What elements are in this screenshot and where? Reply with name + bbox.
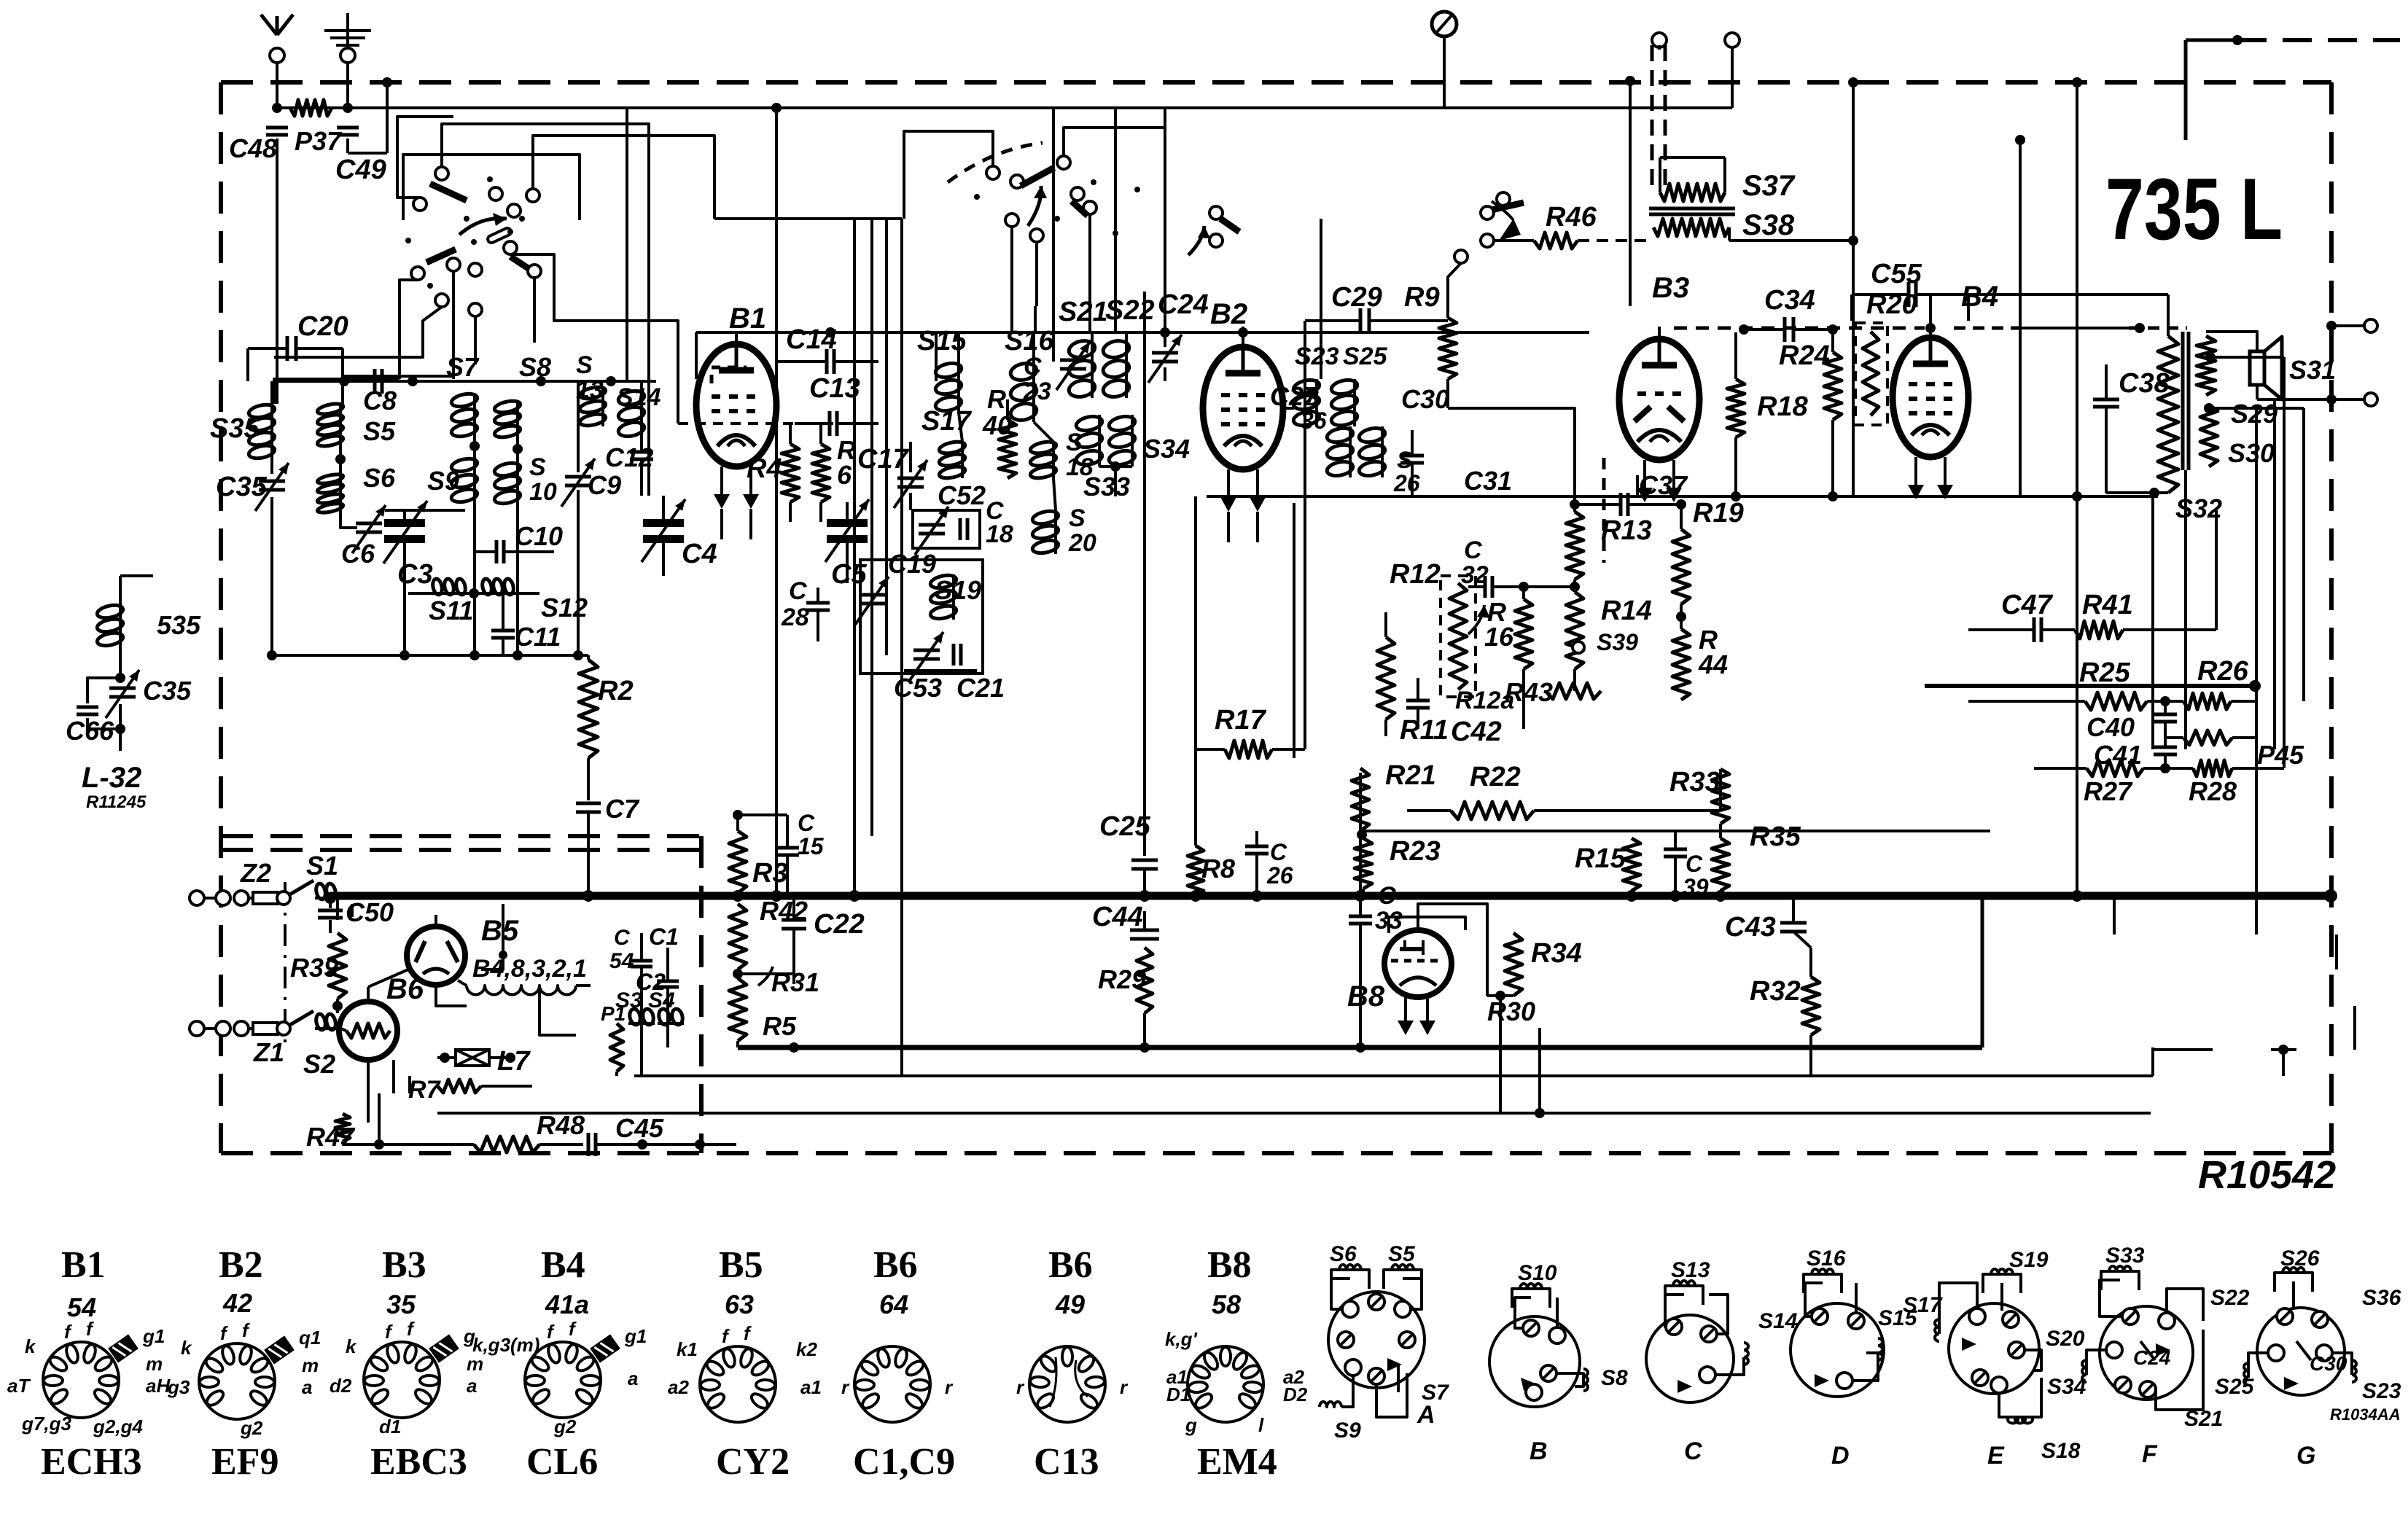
AVC dashed line xyxy=(1674,327,1925,330)
capacitor C43 xyxy=(1780,921,1807,925)
capacitor C2 xyxy=(657,980,679,983)
svg-text:R12a: R12a xyxy=(1455,687,1514,714)
wire B2 to S24 xyxy=(1283,407,1294,410)
resistor R40 xyxy=(999,420,1016,478)
svg-text:R35: R35 xyxy=(1750,822,1801,852)
svg-text:C1,C9: C1,C9 xyxy=(853,1441,955,1483)
svg-text:13: 13 xyxy=(576,376,604,404)
mains terminals xyxy=(1652,33,1667,47)
capacitor C42 xyxy=(1406,699,1430,703)
svg-text:S22: S22 xyxy=(1105,295,1155,326)
svg-text:R46: R46 xyxy=(1546,202,1597,233)
tube B8 EM4 xyxy=(1384,930,1452,997)
svg-text:C1: C1 xyxy=(649,924,679,950)
capacitor C18 xyxy=(959,518,962,540)
coil form B xyxy=(1489,1316,1580,1407)
B1 cathode wires xyxy=(720,509,723,539)
svg-text:P45: P45 xyxy=(2257,740,2304,770)
svg-text:15: 15 xyxy=(798,833,825,859)
svg-text:S7: S7 xyxy=(1422,1381,1449,1405)
resistor R6 xyxy=(812,444,830,502)
B8 grid wires xyxy=(1389,917,1465,933)
output transformer core xyxy=(2181,332,2185,470)
resistor R4 xyxy=(782,444,799,502)
svg-text:S8: S8 xyxy=(519,352,551,382)
resistor R42 xyxy=(729,904,747,969)
wire B3 bottom xyxy=(1636,475,1639,496)
svg-text:C9: C9 xyxy=(588,470,621,500)
svg-text:C42: C42 xyxy=(1451,717,1502,747)
variable capacitor C4 xyxy=(643,519,684,527)
svg-text:R2: R2 xyxy=(598,676,634,706)
svg-text:C31: C31 xyxy=(1464,466,1512,496)
coil S35 xyxy=(270,404,273,459)
svg-text:Z1: Z1 xyxy=(253,1037,284,1067)
capacitor C8 xyxy=(373,369,377,394)
svg-text:R48: R48 xyxy=(537,1110,585,1140)
wire switch1 to B1 xyxy=(554,306,678,424)
svg-text:S39: S39 xyxy=(1597,629,1638,655)
coils S3 S4 xyxy=(628,1022,655,1025)
capacitor C21 xyxy=(952,644,956,666)
capacitor C29 xyxy=(1359,308,1363,333)
svg-text:C21: C21 xyxy=(956,673,1005,703)
variable capacitor C6 xyxy=(356,522,382,526)
svg-text:g2,g4: g2,g4 xyxy=(93,1416,143,1437)
resistor R48 xyxy=(474,1136,539,1152)
wire B1 area verticals xyxy=(695,332,698,379)
capacitor C31 xyxy=(1400,454,1424,458)
coil form D xyxy=(1791,1303,1884,1397)
resistor R8 xyxy=(1188,846,1204,896)
resistor R13 xyxy=(1566,512,1583,580)
svg-text:54: 54 xyxy=(609,949,634,973)
resistor R18 xyxy=(1727,379,1745,437)
svg-text:k: k xyxy=(181,1337,192,1359)
resistor R24 xyxy=(1824,352,1842,420)
resistor R5 xyxy=(729,978,747,1041)
svg-text:B3: B3 xyxy=(382,1244,426,1286)
coil S8 xyxy=(516,400,519,437)
coil S34 xyxy=(1131,415,1134,467)
svg-text:S23: S23 xyxy=(1295,343,1339,370)
svg-text:Z2: Z2 xyxy=(240,858,271,888)
svg-text:EF9: EF9 xyxy=(211,1441,278,1483)
coil form A xyxy=(1328,1292,1425,1388)
svg-text:C4: C4 xyxy=(682,539,717,569)
bus line 2 xyxy=(738,1045,1982,1050)
svg-text:R1034AA: R1034AA xyxy=(2330,1405,2401,1424)
wire top bus xyxy=(277,106,1665,109)
variable capacitor C5 xyxy=(827,519,868,527)
capacitor C49 xyxy=(337,126,359,130)
svg-text:R31: R31 xyxy=(771,967,819,997)
svg-text:aT: aT xyxy=(7,1375,31,1397)
svg-text:C: C xyxy=(1684,1437,1702,1465)
svg-text:R25: R25 xyxy=(2079,658,2131,688)
capacitor C22 xyxy=(782,918,806,922)
coil S17 xyxy=(961,442,964,478)
capacitor C26 xyxy=(1245,845,1269,848)
svg-text:S9: S9 xyxy=(427,466,459,496)
capacitor C48 xyxy=(266,126,288,130)
svg-text:S: S xyxy=(1069,504,1086,532)
wire B4 cathode xyxy=(1914,488,1917,496)
svg-text:C11: C11 xyxy=(515,622,561,652)
svg-text:C55: C55 xyxy=(1871,259,1922,289)
svg-text:C47: C47 xyxy=(2001,590,2054,620)
coil S2 choke xyxy=(315,1027,337,1030)
svg-text:g1: g1 xyxy=(142,1325,165,1347)
svg-text:S32: S32 xyxy=(2175,493,2222,523)
svg-text:S9: S9 xyxy=(1334,1419,1361,1443)
svg-text:S: S xyxy=(529,453,546,481)
svg-text:S33: S33 xyxy=(2105,1244,2145,1268)
svg-text:C5: C5 xyxy=(831,559,867,590)
main earth bus thick xyxy=(330,892,2331,900)
svg-text:735 L: 735 L xyxy=(2105,160,2283,258)
resistor R35 xyxy=(1712,838,1729,891)
svg-text:C25: C25 xyxy=(1099,811,1151,842)
svg-text:C40: C40 xyxy=(2086,712,2135,742)
svg-text:R47: R47 xyxy=(306,1122,356,1152)
svg-text:a: a xyxy=(467,1375,477,1397)
resistor R2 xyxy=(587,655,590,660)
wire B1 left xyxy=(695,332,698,379)
svg-text:k2: k2 xyxy=(796,1338,817,1360)
svg-text:S34: S34 xyxy=(1143,434,1190,464)
wires under power xyxy=(615,1072,618,1076)
svg-text:a: a xyxy=(302,1376,312,1398)
svg-text:R24: R24 xyxy=(1779,340,1830,371)
resistor R47 xyxy=(335,1114,350,1142)
svg-text:R41: R41 xyxy=(2082,590,2133,620)
svg-text:S19: S19 xyxy=(2009,1248,2049,1272)
svg-text:g3: g3 xyxy=(167,1376,190,1398)
svg-text:S36: S36 xyxy=(2362,1286,2401,1310)
resistor R32 xyxy=(1802,977,1820,1035)
svg-text:B4: B4 xyxy=(541,1244,585,1286)
mains input terminals lower xyxy=(190,1021,204,1036)
tube B5 CY2 rectifier xyxy=(407,926,465,985)
svg-text:G: G xyxy=(2296,1442,2315,1470)
wire row r22 xyxy=(1362,830,1990,832)
svg-text:ECH3: ECH3 xyxy=(41,1441,142,1483)
svg-text:a2: a2 xyxy=(668,1376,689,1398)
svg-text:C53: C53 xyxy=(894,673,942,703)
svg-text:26: 26 xyxy=(1266,862,1293,889)
svg-text:k: k xyxy=(25,1335,36,1357)
capacitor C47 xyxy=(2033,617,2036,642)
coil S9 xyxy=(473,458,476,504)
svg-text:L-32: L-32 xyxy=(82,762,141,794)
wire to B8 xyxy=(1538,1028,1541,1113)
capacitor C28 xyxy=(806,601,830,605)
resistor R39 xyxy=(329,933,346,999)
svg-text:C17: C17 xyxy=(857,444,910,475)
resistor R11 xyxy=(1377,637,1395,719)
switch S2 xyxy=(289,1011,313,1026)
tube B4 CL6 xyxy=(1893,337,1968,457)
svg-text:B: B xyxy=(1530,1437,1548,1465)
variable capacitor C9 xyxy=(565,475,591,479)
resistor R29 xyxy=(1137,948,1153,1013)
coil S6 xyxy=(339,474,342,513)
svg-text:35: 35 xyxy=(386,1289,416,1319)
coil S24 xyxy=(1349,426,1352,477)
capacitor C32 xyxy=(1484,576,1487,598)
svg-text:C29: C29 xyxy=(1331,282,1382,313)
coil S5 xyxy=(339,404,342,446)
coil form C xyxy=(1646,1315,1734,1402)
resistor R27 xyxy=(2086,760,2143,776)
svg-text:S: S xyxy=(1066,429,1083,456)
svg-text:R22: R22 xyxy=(1470,762,1521,792)
capacitor C38 xyxy=(2093,398,2119,402)
coil S12 xyxy=(481,592,515,595)
svg-text:C48: C48 xyxy=(229,133,277,163)
svg-text:R8: R8 xyxy=(1201,854,1235,883)
svg-text:R17: R17 xyxy=(1215,705,1267,735)
resistor R23 xyxy=(1355,838,1372,889)
svg-text:S37: S37 xyxy=(1742,170,1796,202)
svg-text:m: m xyxy=(146,1353,163,1375)
svg-text:42: 42 xyxy=(222,1288,252,1318)
transformer core xyxy=(1649,207,1735,211)
capacitor C66 xyxy=(87,678,120,703)
svg-text:R26: R26 xyxy=(2197,656,2249,687)
svg-text:63: 63 xyxy=(725,1289,754,1319)
wafer 3 contacts xyxy=(1209,206,1223,219)
coil S19 xyxy=(952,574,955,620)
svg-text:S35: S35 xyxy=(210,413,260,444)
coil S18 xyxy=(1052,442,1055,478)
coil S21 xyxy=(1091,340,1094,398)
bus line 3 xyxy=(634,1074,2153,1077)
svg-text:64: 64 xyxy=(879,1289,908,1319)
wire R35 R32 column xyxy=(1719,891,1722,896)
svg-text:S14: S14 xyxy=(1758,1309,1798,1333)
bandfilter trimmer box xyxy=(860,560,983,674)
svg-text:B6: B6 xyxy=(1048,1244,1093,1286)
coil S22 xyxy=(1125,340,1128,398)
svg-text:S19: S19 xyxy=(935,575,981,605)
svg-text:6: 6 xyxy=(837,460,852,490)
variable capacitor C24 xyxy=(1152,351,1178,355)
svg-text:S25: S25 xyxy=(1343,343,1388,370)
svg-text:q1: q1 xyxy=(299,1327,321,1349)
variable capacitor C3 (tuning gang) xyxy=(385,509,465,512)
svg-text:R15: R15 xyxy=(1575,843,1626,874)
capacitor C52 trimmer xyxy=(913,510,980,548)
svg-text:S31: S31 xyxy=(2289,355,2336,385)
svg-text:R14: R14 xyxy=(1601,596,1652,626)
coil S16 xyxy=(1032,362,1035,422)
svg-text:EM4: EM4 xyxy=(1197,1441,1277,1483)
output terminals xyxy=(2257,398,2369,401)
svg-text:C35: C35 xyxy=(216,472,268,502)
svg-text:R23: R23 xyxy=(1390,836,1441,867)
svg-text:R5: R5 xyxy=(763,1011,797,1041)
coil S14 xyxy=(640,390,643,437)
svg-text:C6: C6 xyxy=(341,539,375,569)
B2 cathode leads xyxy=(1227,512,1230,542)
svg-text:B5: B5 xyxy=(481,915,519,947)
svg-text:C35: C35 xyxy=(143,676,192,706)
svg-text:R30: R30 xyxy=(1487,996,1535,1026)
svg-text:S22: S22 xyxy=(2210,1286,2250,1310)
svg-text:18: 18 xyxy=(986,520,1013,548)
svg-text:B8: B8 xyxy=(1347,980,1385,1012)
wire bottom xyxy=(343,1143,474,1146)
antenna xyxy=(276,55,278,108)
svg-text:R11245: R11245 xyxy=(86,792,147,812)
svg-text:d2: d2 xyxy=(330,1375,352,1397)
svg-text:S21: S21 xyxy=(1059,297,1108,327)
wire stub xyxy=(378,1093,381,1144)
wire HT feeders xyxy=(1629,81,1632,306)
svg-text:C19: C19 xyxy=(888,549,936,579)
svg-text:C22: C22 xyxy=(814,909,865,940)
wires power section xyxy=(367,987,370,1002)
coil S13 xyxy=(601,386,604,426)
svg-text:D1: D1 xyxy=(1166,1384,1191,1405)
resistor R21 xyxy=(1352,768,1369,831)
svg-text:S18: S18 xyxy=(2041,1439,2081,1463)
svg-text:S1: S1 xyxy=(306,851,338,881)
coil S7 xyxy=(473,393,476,437)
svg-text:C14: C14 xyxy=(786,324,837,355)
resistor R26 xyxy=(2183,693,2231,709)
svg-text:20: 20 xyxy=(1068,529,1096,557)
resistor R43 xyxy=(1546,683,1601,699)
svg-text:C: C xyxy=(1270,839,1287,865)
winding S37 xyxy=(1660,184,1725,201)
choke L7 xyxy=(456,1050,489,1066)
svg-text:g7,g3: g7,g3 xyxy=(21,1413,71,1435)
capacitor C1 xyxy=(631,959,652,963)
svg-text:EBC3: EBC3 xyxy=(370,1441,467,1483)
svg-text:S30: S30 xyxy=(2228,438,2275,468)
capacitor C40 xyxy=(2154,713,2177,717)
svg-text:28: 28 xyxy=(781,604,809,631)
resistor R20 in dashed box xyxy=(1855,323,1887,425)
coil S1 choke xyxy=(315,897,337,900)
svg-text:C13: C13 xyxy=(1034,1441,1099,1483)
svg-text:C12: C12 xyxy=(605,442,653,472)
svg-text:l: l xyxy=(1258,1414,1264,1436)
wire C24 to bus xyxy=(1164,108,1166,332)
coil S23 xyxy=(1315,379,1318,426)
svg-text:R10542: R10542 xyxy=(2198,1153,2336,1197)
capacitor C44 xyxy=(1130,929,1159,932)
svg-text:C30: C30 xyxy=(1401,384,1449,414)
resistor R16 xyxy=(1515,599,1532,669)
capacitor C10 xyxy=(495,540,499,563)
svg-text:C7: C7 xyxy=(605,794,640,824)
svg-text:S: S xyxy=(1397,447,1413,473)
svg-text:S8: S8 xyxy=(1601,1366,1628,1390)
wire secondary to speaker xyxy=(2206,332,2257,351)
svg-text:R12: R12 xyxy=(1390,559,1441,590)
coil S33 xyxy=(1098,415,1101,467)
svg-text:S10: S10 xyxy=(1518,1261,1557,1285)
svg-text:g: g xyxy=(1185,1414,1197,1436)
svg-text:41a: 41a xyxy=(545,1289,589,1319)
svg-text:C3: C3 xyxy=(397,559,433,590)
svg-text:C8: C8 xyxy=(363,386,397,415)
coil S10 xyxy=(516,462,519,504)
capacitor C41 xyxy=(2154,746,2177,749)
svg-text:m: m xyxy=(302,1354,319,1376)
potentiometer R46 xyxy=(1534,233,1578,249)
trimmer on S21 xyxy=(1060,359,1086,362)
B4 heater dashes xyxy=(1954,327,2019,330)
winding S29 xyxy=(2197,336,2216,395)
mains input terminals xyxy=(190,891,204,905)
resistor R37 xyxy=(290,100,332,116)
svg-text:C66: C66 xyxy=(66,716,114,746)
svg-text:S17: S17 xyxy=(1903,1293,1943,1317)
variable capacitor C35 pickup xyxy=(119,647,122,678)
svg-text:C44: C44 xyxy=(1092,902,1143,932)
svg-text:S5: S5 xyxy=(363,416,396,446)
capacitor C20 xyxy=(286,336,289,361)
svg-text:R33: R33 xyxy=(1669,767,1721,797)
svg-text:CY2: CY2 xyxy=(716,1441,790,1483)
svg-text:R11: R11 xyxy=(1400,715,1449,746)
svg-text:B5: B5 xyxy=(719,1244,763,1286)
resistor R14 xyxy=(1566,592,1583,669)
potentiometer R12 xyxy=(1441,576,1476,697)
svg-text:a: a xyxy=(628,1367,638,1389)
fuse Z1 xyxy=(253,1023,278,1034)
resistor R15 xyxy=(1623,838,1640,891)
svg-text:10: 10 xyxy=(529,478,557,506)
top right dashed lead xyxy=(2237,38,2400,42)
svg-text:g1: g1 xyxy=(624,1325,647,1347)
svg-text:R9: R9 xyxy=(1404,282,1440,313)
svg-text:k: k xyxy=(346,1335,357,1357)
main chassis dashed border xyxy=(221,80,2331,85)
coil S25 xyxy=(1353,379,1356,426)
svg-text:B1: B1 xyxy=(729,303,766,335)
svg-text:S23: S23 xyxy=(2362,1379,2401,1403)
wire B1 grid xyxy=(678,422,795,425)
svg-text:d1: d1 xyxy=(379,1416,401,1437)
svg-text:L7: L7 xyxy=(497,1046,531,1077)
resistor R9 xyxy=(1439,318,1457,379)
svg-text:R27: R27 xyxy=(2084,776,2133,806)
svg-text:R19: R19 xyxy=(1693,498,1744,528)
svg-text:S12: S12 xyxy=(541,593,588,623)
svg-text:S: S xyxy=(576,351,593,379)
svg-text:R34: R34 xyxy=(1531,938,1582,969)
bus line 4 xyxy=(437,1112,2151,1115)
capacitor C15 xyxy=(776,846,799,850)
capacitor C50 xyxy=(324,892,336,904)
svg-text:S20: S20 xyxy=(2046,1327,2085,1351)
capacitor C33 xyxy=(1349,915,1372,918)
capacitor C11 xyxy=(491,629,515,633)
capacitor C55 xyxy=(1907,282,1911,307)
svg-text:B2: B2 xyxy=(1210,298,1247,330)
resistor R31 wiring xyxy=(736,969,739,978)
output transformer primary xyxy=(2158,336,2178,493)
capacitor C12 xyxy=(630,450,653,454)
resistor R45a xyxy=(2183,730,2232,745)
svg-text:E: E xyxy=(1987,1442,2005,1470)
